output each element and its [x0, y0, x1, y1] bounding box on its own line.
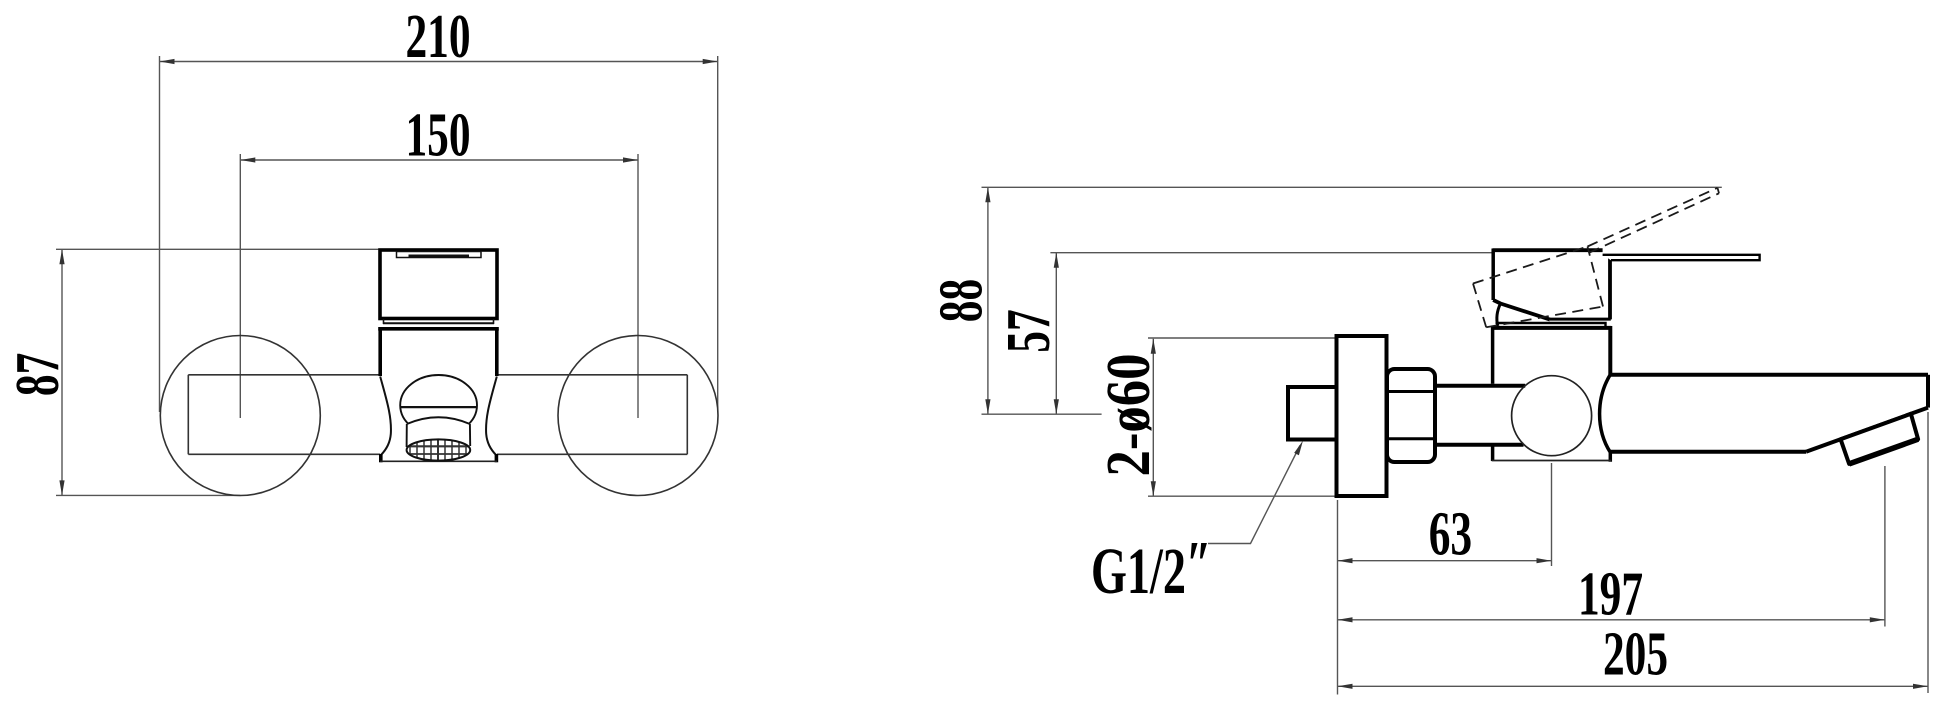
cartridge inner lip [397, 252, 482, 258]
spout nozzle [1841, 414, 1919, 464]
body spout fillet [1600, 375, 1611, 462]
dimension 88 line [987, 187, 989, 414]
body side top edge [1492, 326, 1612, 330]
label G1/2 leader arrow [1294, 441, 1303, 456]
supply pipe [1435, 386, 1525, 445]
svg-text:150: 150 [405, 100, 470, 170]
handle skirt arc [1497, 304, 1501, 327]
handle left edge [1491, 249, 1495, 301]
extension line 2-o60 bottom [1148, 495, 1335, 497]
aerator face ellipse [407, 439, 471, 460]
body side right edge [1608, 326, 1612, 375]
extension line 210 right [717, 56, 719, 412]
dimension 88 text [926, 279, 996, 322]
spout underside slant [1806, 408, 1928, 452]
handle bottom slant [1493, 300, 1550, 320]
dimension 2-o60 line [1152, 339, 1154, 496]
extension line 210 left [159, 56, 161, 412]
dimension 205 arrows [1338, 684, 1929, 689]
dimension 87 text [2, 353, 72, 396]
svg-text:63: 63 [1429, 499, 1472, 569]
svg-text:88: 88 [926, 279, 996, 322]
label G1/2 text [1091, 528, 1211, 608]
extension line 205 right [1927, 412, 1929, 693]
aerator chord [400, 406, 477, 408]
dimension 205 text [1603, 619, 1668, 689]
body side fillet right [486, 377, 497, 456]
dimension 150 arrows [240, 157, 638, 162]
extension line left shared 63 197 205 [1337, 500, 1339, 695]
dimension 57 text [993, 309, 1063, 352]
svg-text:57: 57 [993, 309, 1063, 352]
dimension 205 line [1338, 685, 1929, 687]
body bottom corner stubs [381, 454, 497, 462]
extension line 197 right [1884, 466, 1886, 627]
dimension 87 line [61, 249, 63, 495]
svg-text:205: 205 [1603, 619, 1668, 689]
handle lever blade [1603, 255, 1760, 260]
wall bar tube [188, 375, 687, 455]
dimension 63 text [1429, 499, 1472, 569]
dimension 197 text [1578, 559, 1643, 629]
hex nut facet lines [1387, 392, 1435, 439]
extension line 150 right [637, 154, 639, 418]
dimension 210 line [160, 61, 718, 63]
dimension 87 arrows [59, 249, 64, 495]
ball joint circle [1512, 376, 1592, 456]
body bottom edge [1492, 460, 1612, 462]
dimension 210 arrows [160, 59, 718, 64]
aerator cup fill [407, 417, 471, 447]
label G1/2 leader [1208, 446, 1300, 544]
dimension 57 arrows [1054, 253, 1059, 415]
hex nut [1387, 369, 1435, 462]
flange circle left [160, 336, 320, 496]
valve body front [378, 329, 499, 376]
body side left edge [1491, 326, 1495, 384]
spout right edge [1926, 375, 1930, 408]
body side left lower stub [1491, 445, 1495, 462]
svg-text:210: 210 [405, 1, 470, 71]
body bottom edge [380, 460, 497, 462]
extension line 88 top [982, 186, 1722, 188]
wall flange side [1337, 336, 1387, 496]
dimension 197 line [1338, 619, 1885, 621]
dimension 2-o60 arrows [1151, 339, 1156, 496]
body side fillet left [380, 377, 391, 456]
extension line 2-o60 top [1148, 337, 1335, 339]
dimension 57 line [1055, 253, 1057, 415]
dimension 63 arrows [1338, 558, 1552, 563]
extension line 88 57 bottom shared [982, 413, 1102, 415]
svg-text:87: 87 [2, 353, 72, 396]
aerator cup edges [407, 417, 471, 447]
spout bottom edge [1610, 450, 1806, 454]
cartridge top cap [380, 250, 497, 319]
collar ring [1496, 323, 1606, 328]
extension line 87 top [56, 248, 379, 250]
aerator dome [400, 375, 477, 435]
handle bottom horizontal [1550, 318, 1611, 321]
extension line 63 right [1551, 463, 1553, 566]
dimension 150 line [240, 159, 638, 161]
handle top edge [1493, 248, 1603, 252]
dimension 197 arrows [1338, 617, 1885, 622]
flange circle right [558, 336, 718, 496]
aerator face fill [407, 439, 471, 460]
dimension 88 arrows [985, 187, 990, 414]
dimension 210 text [405, 1, 470, 71]
extension line 57 top [1050, 252, 1492, 254]
ring under cartridge [383, 319, 494, 324]
G half inch stub [1288, 387, 1337, 440]
extension line 150 left [239, 154, 241, 418]
svg-text:G1/2″: G1/2″ [1091, 528, 1211, 608]
raised handle dashed [1473, 188, 1719, 327]
dimension 2-o60 text [1095, 354, 1163, 477]
dimension 63 line [1338, 560, 1552, 562]
spout top edge [1610, 373, 1928, 377]
dimension 150 text [405, 100, 470, 170]
handle right edge [1608, 254, 1612, 319]
extension line 87 bottom [56, 494, 240, 496]
